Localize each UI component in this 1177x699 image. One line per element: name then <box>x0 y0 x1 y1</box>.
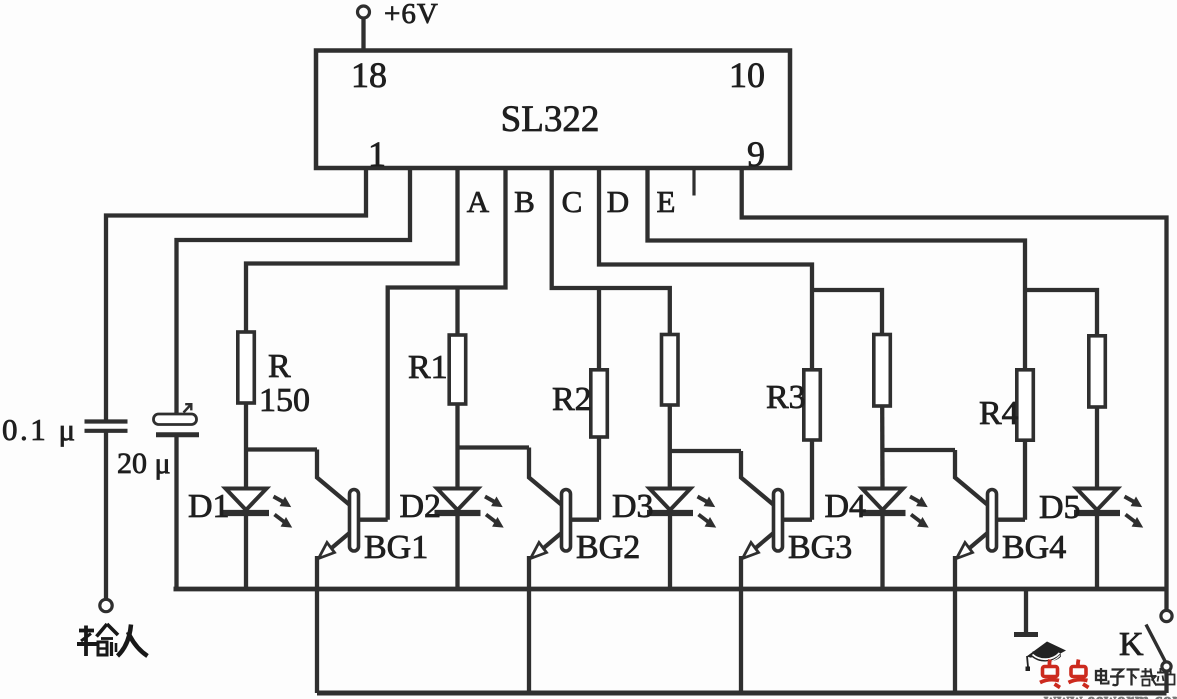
resistor RX5 (D5 feed) <box>1089 336 1106 407</box>
transistor BG2 <box>529 448 599 559</box>
svg-text:18: 18 <box>351 55 387 95</box>
op-amp/IC U1 SL322 box <box>316 51 790 169</box>
resistor RX3 (D3 feed) <box>662 335 679 406</box>
wire bus to ground <box>1024 589 1028 633</box>
resistor R2 <box>591 370 608 437</box>
svg-text:+6V: +6V <box>384 0 439 30</box>
ground symbol <box>1014 632 1038 637</box>
svg-text:www.eeworm.com: www.eeworm.com <box>1044 690 1177 699</box>
wire pin1 to C1 (0.1u) <box>106 168 366 421</box>
capacitor C2 20u plate bottom <box>156 432 199 437</box>
wire RX5 bottom to D5 <box>1095 407 1099 490</box>
svg-text:D1: D1 <box>188 488 230 525</box>
svg-text:9: 9 <box>747 134 765 174</box>
wire switch K to bottom rail <box>1164 671 1168 693</box>
transistor BG3 <box>741 451 812 559</box>
svg-text:0.1 μ: 0.1 μ <box>2 412 78 447</box>
resistor R4 <box>1017 370 1034 440</box>
wire collector link cell 3 <box>670 449 741 453</box>
switch K blade <box>1146 625 1166 663</box>
label input (shu ru) <box>77 624 148 656</box>
switch K bottom terminal <box>1162 662 1171 671</box>
pin stub E (unconnected tick) <box>692 168 695 196</box>
wire junction B to R2 top <box>597 288 601 370</box>
wire D2 cathode to bus <box>455 513 459 589</box>
svg-text:D2: D2 <box>400 488 442 525</box>
resistor R1 <box>449 335 466 404</box>
wire BG1 emitter to bottom rail <box>315 556 319 693</box>
wire branch C to RX4 top <box>812 290 882 335</box>
wire BG2 emitter to bottom rail <box>527 556 531 693</box>
wire branch D to RX5 top <box>1025 290 1097 336</box>
wire output A to BG1 base <box>388 168 506 520</box>
wire R150 bottom to D1 <box>244 403 248 489</box>
transistor BG4 <box>955 450 1025 559</box>
wire BG3 emitter to bottom rail <box>739 556 743 693</box>
svg-text:10: 10 <box>729 55 765 95</box>
wire pin2 to C2 (20u) <box>177 168 411 413</box>
capacitor C2 20u plus plate <box>154 414 197 425</box>
wire pin9 to switch K <box>742 168 1167 611</box>
wire +6V to IC pin 18 <box>361 18 365 51</box>
svg-text:1: 1 <box>368 134 386 174</box>
wire C2 to emitter bus <box>174 435 178 589</box>
wire collector link cell 2 <box>458 445 530 449</box>
LED D4 <box>860 489 929 528</box>
svg-text:R1: R1 <box>408 349 448 386</box>
svg-text:SL322: SL322 <box>501 99 600 140</box>
wire collector link cell 4 <box>883 448 956 452</box>
wire D3 cathode to bus <box>668 513 672 589</box>
wire D5 cathode to bus <box>1095 513 1099 589</box>
capacitor C1 0.1u plate top <box>85 419 128 423</box>
svg-text:R2: R2 <box>552 381 592 418</box>
wire junction A to R1 top <box>455 288 459 336</box>
wire D1 cathode to bus <box>244 513 248 589</box>
wire RX3 bottom to D3 <box>668 405 673 489</box>
svg-text:D5: D5 <box>1039 489 1081 526</box>
wire R4 bottom to BG4 base <box>1023 440 1027 520</box>
svg-text:150: 150 <box>259 382 310 419</box>
wire RX4 bottom to D4 <box>880 406 885 489</box>
resistor RX4 (D4 feed) <box>874 335 891 407</box>
wire R2 bottom to BG2 base <box>597 437 601 520</box>
watermark chong #1 <box>1048 660 1052 668</box>
watermark logo graduation cap <box>1026 642 1067 672</box>
svg-text:B: B <box>514 184 535 219</box>
svg-text:C: C <box>562 184 583 219</box>
bottom rail wire <box>317 691 1167 696</box>
resistor R3 <box>804 370 821 440</box>
watermark text dian-zi-xia-zai-zhan <box>1096 668 1175 686</box>
svg-text:A: A <box>467 184 490 219</box>
wire collector link cell 1 <box>246 447 317 451</box>
svg-text:R3: R3 <box>766 379 806 416</box>
LED D2 <box>435 489 504 528</box>
wire D4 cathode to bus <box>880 513 884 589</box>
svg-text:E: E <box>657 184 676 219</box>
wire pin3 to R(150) top <box>246 168 458 332</box>
wire C1 to input terminal <box>104 431 108 600</box>
svg-text:BG4: BG4 <box>1002 529 1066 566</box>
LED D1 <box>223 489 292 528</box>
LED D5 <box>1074 489 1143 528</box>
wire output D to R4 top <box>648 168 1026 370</box>
resistor R 150 <box>238 332 255 403</box>
svg-text:BG3: BG3 <box>788 529 852 566</box>
transistor BG1 <box>317 450 388 559</box>
svg-text:BG1: BG1 <box>364 529 428 566</box>
+6V terminal <box>358 6 370 18</box>
wire output B to RX3 top <box>552 168 670 335</box>
wire BG4 emitter to bottom rail <box>953 556 957 693</box>
switch K top terminal <box>1161 610 1172 621</box>
svg-text:D4: D4 <box>825 488 867 525</box>
emitter bus wire <box>174 587 1167 592</box>
wire R3 bottom to BG3 base <box>810 440 814 520</box>
svg-text:R: R <box>268 348 291 385</box>
input terminal circle <box>100 599 112 611</box>
capacitor C2 polarity arrow <box>184 404 192 412</box>
svg-text:R4: R4 <box>979 395 1019 432</box>
watermark chong #2 <box>1076 660 1080 668</box>
svg-text:D: D <box>607 184 629 219</box>
wire R1 bottom to D2 <box>455 404 459 489</box>
LED D3 <box>647 489 716 528</box>
svg-text:D3: D3 <box>612 488 654 525</box>
svg-text:K: K <box>1119 626 1144 663</box>
svg-text:BG2: BG2 <box>576 529 640 566</box>
wire output C to R3 top <box>599 168 812 370</box>
capacitor C1 0.1u plate bottom <box>85 429 128 433</box>
svg-text:20 μ: 20 μ <box>117 447 171 480</box>
